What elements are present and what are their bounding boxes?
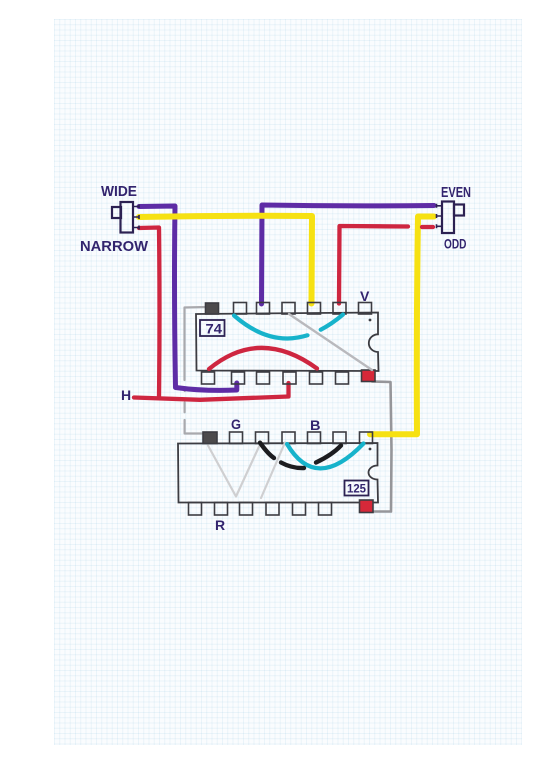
IC U2 top pin 5: [308, 432, 321, 444]
IC U1 top pin 5: [308, 303, 321, 315]
IC U1 bottom pin 3: [257, 372, 270, 384]
svg-text:B: B: [310, 417, 321, 433]
IC U2 bottom pin 5: [293, 503, 306, 516]
wire red ODD to U1 top pin 6: [339, 226, 433, 304]
wire purple EVEN to U1 top pin 3: [262, 205, 435, 304]
IC U1 top pin 3: [257, 303, 270, 315]
wire yellow WIDE to U1 top pin 5: [139, 216, 312, 304]
IC U1 top pin 2: [234, 303, 247, 315]
IC U1 bottom pin 6: [336, 372, 349, 384]
IC U2 internal gray V 1: [208, 446, 260, 497]
IC U2 label box 125: [345, 481, 369, 496]
IC U1 internal gray diagonal: [289, 314, 372, 370]
IC U2 top pin 6: [333, 432, 346, 444]
IC U1 bottom pin 5: [310, 372, 323, 384]
IC U2 top pin 2: [230, 432, 243, 444]
svg-text:V: V: [360, 288, 370, 304]
IC U2 125 body: [178, 443, 378, 503]
IC U2 top pin 4: [282, 432, 295, 444]
IC U1 74 body: [196, 313, 379, 372]
IC U1 top pin 6: [333, 303, 346, 315]
IC U1 top pin 1 (dark): [206, 303, 219, 314]
svg-text:125: 125: [347, 482, 366, 496]
IC U2 internal black dashed arc: [260, 443, 341, 468]
wire purple WIDE to U1 pin bottom-2: [139, 206, 237, 390]
IC U2 top pin 7: [360, 432, 373, 444]
IC U1 bottom pin 7 (red): [362, 370, 376, 382]
IC U1 top pin 7: [359, 303, 372, 315]
svg-text:H: H: [121, 387, 131, 403]
IC U1 bottom pin 4: [283, 372, 296, 384]
IC U1 bottom pin 2: [232, 372, 245, 384]
svg-text:ODD: ODD: [444, 236, 467, 252]
IC U2 top pin 1 (dark): [203, 432, 217, 444]
IC U1 top pin 4: [282, 303, 295, 315]
wire red NARROW down to H rail: [139, 228, 160, 398]
IC U2 top pin 3: [256, 432, 269, 444]
IC U2 internal cyan arc: [287, 444, 364, 469]
svg-text:NARROW: NARROW: [80, 238, 149, 255]
wire yellow EVEN to U2 top pin 7: [370, 217, 434, 435]
IC U2 bottom pin 4: [266, 503, 279, 516]
wire red H rail to U1 bottom pin 4: [134, 383, 289, 400]
IC U1 label box 74: [200, 320, 225, 337]
IC U2 bottom pin 3: [240, 503, 253, 516]
IC U2 bottom pin 1: [189, 503, 202, 516]
IC U1 bottom pin 1: [202, 372, 215, 384]
IC U2 internal gray diagonal: [261, 443, 285, 499]
IC U2 bottom pin 2: [215, 503, 228, 516]
IC U1 pin1 dot: [369, 319, 372, 322]
connector J2 EVEN/ODD body: [442, 202, 464, 234]
IC U2 bottom pin 6: [319, 503, 332, 516]
svg-text:G: G: [231, 416, 241, 432]
connector J1 WIDE/NARROW body: [112, 202, 133, 233]
svg-text:R: R: [215, 517, 225, 533]
svg-text:74: 74: [206, 322, 223, 337]
connector J1 pin stubs: [133, 205, 139, 230]
connector J2 pin stubs: [437, 204, 443, 229]
wire gray U1 pin 1 to U2 pin 1: [185, 307, 208, 434]
IC U2 bottom pin 7 (red): [360, 500, 374, 513]
wire gray U1 bottom pin 7 to U2 bottom pin 7: [371, 382, 392, 512]
IC U1 internal red arc: [209, 348, 317, 369]
svg-text:EVEN: EVEN: [441, 184, 471, 201]
IC U1 internal cyan arc: [234, 315, 343, 339]
svg-text:WIDE: WIDE: [101, 183, 137, 200]
IC U2 pin1 dot: [369, 448, 372, 451]
